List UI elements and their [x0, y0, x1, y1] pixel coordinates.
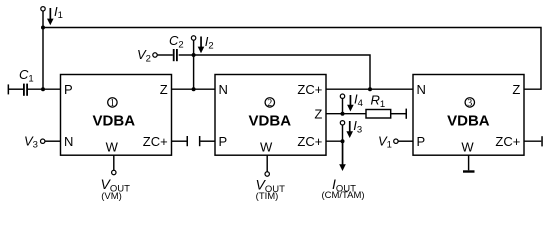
wire: C1 right plate to P pin of U1 — [28, 88, 61, 90]
wire: V2 terminal to C2 left plate — [157, 54, 173, 56]
wire: I3 stub — [342, 125, 344, 141]
wire: Z pin U2 to R1 — [326, 113, 366, 115]
svg-text:VDBA: VDBA — [93, 112, 136, 129]
current arrow I4 — [347, 95, 354, 112]
wire: top feedback from node A to Z pin of U3 — [43, 28, 541, 90]
svg-text:2: 2 — [267, 98, 272, 109]
bar terminal (P U2) — [199, 136, 201, 146]
svg-text:Z: Z — [512, 82, 520, 97]
wire: ZC+ top pin U2 to N pin U3 — [326, 88, 413, 90]
svg-text:W: W — [260, 140, 273, 155]
VDBA block U1 — [61, 75, 172, 156]
wire: node A down to C1 junction — [42, 28, 44, 90]
wire: I2 stub — [193, 40, 195, 55]
wire: I4 stub — [342, 98, 344, 113]
wire: W pin U2 to output terminal — [266, 155, 268, 172]
output terminal VOUT(VM) — [112, 170, 116, 174]
svg-text:(CM/TAM): (CM/TAM) — [321, 190, 364, 201]
terminal I2 — [191, 36, 195, 40]
input terminal V1 — [394, 139, 398, 143]
svg-text:1: 1 — [110, 98, 115, 109]
block number 3 — [465, 98, 474, 109]
input bar terminal (left of C1) — [8, 84, 10, 94]
junction IOUT node — [341, 139, 345, 143]
svg-text:N: N — [417, 82, 426, 97]
svg-text:ZC+: ZC+ — [495, 134, 520, 149]
output terminal VOUT(TIM) — [265, 172, 269, 176]
svg-text:Z: Z — [160, 82, 168, 97]
current arrow I2 — [198, 37, 205, 54]
wire: ZC+ pin U3 to bar — [525, 140, 542, 142]
bar terminal (ZC+ U3) — [541, 136, 543, 146]
svg-text:ZC+: ZC+ — [297, 134, 322, 149]
node A junction — [41, 26, 45, 30]
wire: input bar to C1 left plate — [9, 88, 24, 90]
svg-text:W: W — [461, 140, 474, 155]
wire: ZC+ bottom pin U2 to IOUT node — [326, 140, 343, 142]
svg-text:VDBA: VDBA — [249, 112, 292, 129]
bar terminal (right of R1) — [406, 109, 408, 119]
junction node C (370,89) — [368, 87, 372, 91]
terminal I3 — [340, 121, 344, 125]
svg-text:P: P — [64, 82, 73, 97]
svg-text:(TIM): (TIM) — [256, 191, 279, 202]
svg-text:P: P — [417, 134, 426, 149]
wire: Z pin U1 to N pin U2 — [172, 88, 216, 90]
wire: ZC+ pin U1 to bar — [172, 140, 187, 142]
svg-text:Z: Z — [314, 106, 322, 121]
junction Z1-N2 / C2 — [192, 87, 196, 91]
svg-text:3: 3 — [467, 98, 472, 109]
capacitor C2 — [173, 49, 178, 61]
node B junction — [192, 53, 196, 57]
svg-text:P: P — [219, 134, 228, 149]
block number 1 — [108, 98, 117, 109]
VDBA block U2 — [215, 75, 326, 156]
svg-text:N: N — [64, 134, 73, 149]
wire: R1 to right bar — [391, 113, 406, 115]
svg-text:ZC+: ZC+ — [297, 82, 322, 97]
ground (W U3) — [463, 170, 475, 172]
svg-text:N: N — [219, 82, 228, 97]
junction Z2 wire — [341, 112, 345, 116]
bar terminal (ZC+ U1) — [187, 136, 189, 146]
current arrow IOUT — [339, 141, 346, 171]
input terminal V3 — [41, 139, 45, 143]
input terminal V2 — [153, 53, 157, 57]
terminal I4 — [340, 94, 344, 98]
current arrow I3 — [346, 121, 353, 138]
resistor R1 — [366, 110, 391, 119]
wire: W pin U1 to output terminal — [113, 155, 115, 170]
block number 2 — [265, 98, 274, 109]
svg-text:(VM): (VM) — [101, 191, 122, 202]
wire: bar to P pin U2 — [200, 140, 215, 142]
junction C1/P — [41, 87, 45, 91]
svg-text:ZC+: ZC+ — [143, 134, 168, 149]
wire: W pin U3 to ground — [468, 155, 470, 170]
wire: node B down to Z1-N2 wire — [193, 55, 195, 89]
svg-text:VDBA: VDBA — [447, 112, 490, 129]
wire: C2 right plate to node B — [179, 54, 194, 56]
current arrow I1 — [47, 8, 54, 25]
wire: V1 terminal to P pin of U3 — [398, 140, 413, 142]
input terminal I1 — [41, 7, 45, 11]
capacitor C1 — [23, 84, 28, 96]
VDBA block U3 — [413, 75, 524, 156]
wire: V3 terminal to N pin of U1 — [45, 140, 61, 142]
wire: node B right then down to ZC+2/N3 wire — [194, 55, 370, 89]
svg-text:W: W — [106, 140, 119, 155]
wire: I1 stub — [42, 11, 44, 28]
